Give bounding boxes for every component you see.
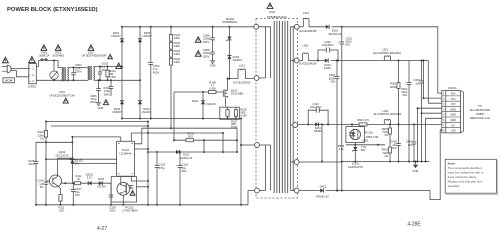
svg-text:1: 1 bbox=[443, 93, 445, 96]
svg-text:GND: GND bbox=[450, 118, 456, 122]
svg-text:GND: GND bbox=[210, 64, 216, 68]
warning triangle (CN001) bbox=[29, 57, 35, 63]
svg-text:CN101: CN101 bbox=[448, 86, 457, 90]
note box bbox=[447, 161, 498, 195]
svg-text:2SC1371A: 2SC1371A bbox=[55, 153, 68, 157]
wire choke L002 to bridge top bbox=[95, 66, 123, 68]
svg-text:4-27: 4-27 bbox=[97, 226, 107, 232]
svg-text:5008-2A: 5008-2A bbox=[39, 54, 49, 58]
diode D103 1N4007 bbox=[227, 56, 231, 59]
wire control bus 1 bbox=[46, 121, 148, 123]
svg-text:(SEE PAGE 4-21): (SEE PAGE 4-21) bbox=[470, 116, 491, 120]
capacitor C006 470p 250V bbox=[98, 80, 100, 101]
warning triangle (bridge) bbox=[116, 63, 122, 69]
svg-text:250V: 250V bbox=[104, 92, 111, 96]
terminal: secondary 2 bbox=[294, 58, 299, 63]
svg-text:1N4007: 1N4007 bbox=[233, 58, 243, 62]
wire vertical x237 bbox=[236, 128, 238, 152]
wire choke L001 bottom bbox=[36, 79, 87, 81]
capacitor C104 1u5 5% bbox=[45, 182, 46, 184]
warning triangle (C007) bbox=[103, 100, 108, 105]
zener ZD102 27V bbox=[71, 137, 73, 183]
optocoupler PC101 (secondary side) bbox=[346, 127, 365, 143]
svg-text:ISS133: ISS133 bbox=[97, 185, 106, 189]
svg-text:EXCELDR35V: EXCELDR35V bbox=[300, 62, 318, 66]
capacitor C201 100U 50V bbox=[341, 27, 343, 162]
wire aux winding to x241 bbox=[241, 144, 255, 146]
op-amp IC101 UC3844A bbox=[117, 141, 135, 176]
capacitor C009 2200p 250V bbox=[212, 52, 213, 54]
wire base Q102 bbox=[46, 142, 49, 205]
svg-text:130K: 130K bbox=[174, 60, 181, 64]
diode D102 ERA91-02 bbox=[176, 150, 179, 154]
wire control bus 2 bbox=[51, 125, 148, 127]
svg-text:UF1822V42E6V09R: UF1822V42E6V09R bbox=[82, 54, 107, 58]
svg-text:5: 5 bbox=[443, 114, 445, 117]
svg-text:L201: L201 bbox=[303, 11, 310, 15]
svg-text:6: 6 bbox=[443, 119, 445, 122]
wire control bus 4 bbox=[131, 132, 223, 134]
svg-text:15V: 15V bbox=[451, 97, 456, 101]
terminal: secondary 1 bbox=[294, 24, 299, 29]
wire bridge left leg bbox=[121, 27, 123, 119]
svg-text:250V: 250V bbox=[203, 40, 210, 44]
wire vertical x204 bbox=[203, 140, 205, 152]
svg-text:4-28E: 4-28E bbox=[407, 222, 421, 228]
svg-text:25V: 25V bbox=[330, 80, 335, 84]
svg-text:PC101: PC101 bbox=[365, 130, 374, 134]
svg-text:1N4007: 1N4007 bbox=[112, 110, 122, 114]
ground (secondary) bbox=[415, 162, 417, 165]
wire CN001 to fuse bbox=[36, 61, 40, 67]
wire 15V to CN101 pin3 bbox=[428, 61, 442, 104]
svg-text:3: 3 bbox=[32, 79, 34, 83]
svg-text:1: 1 bbox=[32, 66, 34, 70]
resistor R301 820R bbox=[398, 61, 400, 125]
resistor divider R501 7k00 1% bbox=[389, 147, 392, 153]
wire drain to transformer terminal bbox=[227, 79, 229, 89]
svg-text:470p: 470p bbox=[159, 166, 166, 170]
terminal: secondary 5 bbox=[294, 188, 299, 193]
ground (C006) bbox=[98, 101, 100, 103]
resistor R103 130K bbox=[169, 51, 172, 58]
capacitor C303 10n bbox=[421, 61, 423, 162]
warning triangle (PC101) bbox=[130, 191, 135, 196]
warning triangle (L001) bbox=[63, 98, 68, 103]
svg-text:Note :: Note : bbox=[448, 162, 457, 166]
diode D104 1SS133 bbox=[99, 181, 102, 185]
svg-text:130K: 130K bbox=[174, 52, 181, 56]
wire C404 area to gnd bus bbox=[321, 124, 323, 161]
resistor R278 2R2 bbox=[186, 139, 194, 142]
svg-text:KA431AZTA: KA431AZTA bbox=[348, 165, 363, 169]
wire plug to CN001 pin2 bbox=[11, 71, 29, 77]
svg-text:ELCO60TRA-3R3J2R2: ELCO60TRA-3R3J2R2 bbox=[373, 51, 401, 55]
capacitor C403 10n bbox=[413, 124, 415, 161]
svg-text:R504 6.8k: R504 6.8k bbox=[366, 135, 379, 139]
diode D201 ERA91-02 bbox=[326, 25, 329, 29]
wire 35V rail bbox=[299, 27, 442, 93]
svg-text:1%: 1% bbox=[384, 133, 389, 137]
wire fuse to choke L001 bbox=[48, 61, 62, 68]
wire bottom rail (primary) bbox=[36, 204, 248, 206]
source resistor box R105/R106 bbox=[220, 107, 240, 119]
svg-text:27V: 27V bbox=[75, 162, 80, 166]
warning triangle (L002) bbox=[88, 45, 94, 51]
wire row y183 bbox=[62, 182, 112, 184]
svg-text:1.8k: 1.8k bbox=[338, 147, 344, 151]
svg-text:35V: 35V bbox=[451, 92, 456, 96]
wire gate drive row bbox=[174, 139, 237, 141]
svg-text:100µ/500V: 100µ/500V bbox=[310, 106, 322, 109]
svg-text:2R2: 2R2 bbox=[188, 135, 194, 139]
resistor R111 10K bbox=[59, 195, 62, 202]
capacitor C402 47u 10V bbox=[398, 124, 400, 161]
svg-text:10K: 10K bbox=[59, 209, 64, 213]
svg-text:0.5W: 0.5W bbox=[240, 113, 247, 117]
svg-text:3: 3 bbox=[443, 103, 445, 106]
svg-text:D104: D104 bbox=[98, 177, 105, 181]
svg-text:5%: 5% bbox=[40, 185, 44, 189]
wire feedback row bbox=[148, 151, 237, 153]
resistor chain R101-R104 line bbox=[170, 27, 172, 128]
svg-text:ERA91-02: ERA91-02 bbox=[180, 156, 193, 160]
svg-text:TO: TO bbox=[478, 104, 482, 108]
svg-text:Replace only with part num: Replace only with part num bbox=[448, 179, 483, 183]
svg-text:EXCELDR35V: EXCELDR35V bbox=[233, 80, 251, 84]
resistor R101 130K bbox=[169, 35, 172, 42]
shunt regulator IC301 KA431AZTA bbox=[354, 143, 356, 162]
svg-text:EXCELDR35V: EXCELDR35V bbox=[300, 29, 318, 33]
svg-text:GND: GND bbox=[98, 106, 104, 110]
diode D301 FE3C bbox=[325, 58, 328, 62]
svg-text:1K: 1K bbox=[77, 177, 80, 181]
svg-text:1%: 1% bbox=[40, 137, 45, 141]
svg-text:PNZRB4WL: PNZRB4WL bbox=[223, 20, 238, 24]
svg-text:+: + bbox=[176, 164, 178, 167]
warning triangle (Z001) bbox=[55, 45, 61, 51]
svg-text:UF1822SG8607Y3N: UF1822SG8607Y3N bbox=[49, 94, 74, 98]
svg-text:10V: 10V bbox=[392, 146, 397, 150]
wire control bus 3 bbox=[142, 127, 237, 129]
resistor R108 4.7 0.5W bbox=[204, 91, 223, 93]
wire primary ground drop bbox=[240, 119, 242, 205]
terminal: primary aux bottom bbox=[255, 188, 260, 193]
svg-text:5.1V: 5.1V bbox=[87, 176, 93, 180]
connector CN001 bbox=[29, 64, 37, 84]
svg-text:L101: L101 bbox=[239, 63, 246, 67]
capacitor C007 470p 250V bbox=[110, 80, 112, 96]
svg-text:15V: 15V bbox=[451, 102, 456, 106]
svg-text:250V: 250V bbox=[90, 100, 97, 104]
svg-text:8: 8 bbox=[443, 130, 445, 133]
resistor R102 130K bbox=[169, 43, 172, 50]
svg-text:GND: GND bbox=[450, 107, 456, 111]
svg-text:0.5W: 0.5W bbox=[109, 75, 116, 79]
transistor Q101 2SK GS12NB0 bbox=[223, 88, 227, 97]
wire gnd bus to bottom bbox=[341, 162, 343, 191]
wire 15V rail bbox=[299, 60, 428, 62]
svg-text:10n: 10n bbox=[408, 143, 413, 147]
svg-text:CN001: CN001 bbox=[28, 85, 37, 89]
choke L001 UF1822SG8607Y3N bbox=[62, 68, 63, 75]
svg-text:ELCO60TRA-3R3J2R2: ELCO60TRA-3R3J2R2 bbox=[374, 112, 402, 116]
capacitor C102 10u 50V bbox=[179, 152, 181, 205]
svg-text:50V: 50V bbox=[75, 193, 80, 197]
svg-text:C501: C501 bbox=[362, 139, 369, 143]
wire plug to CN001 pin1 bbox=[11, 67, 29, 69]
terminal: primary top bbox=[254, 24, 259, 29]
capacitor C103 470p bbox=[156, 152, 158, 205]
capacitor C003 47u 400V bbox=[150, 27, 152, 119]
svg-text:510K4BD: 510K4BD bbox=[53, 54, 65, 58]
svg-text:50V: 50V bbox=[345, 43, 350, 47]
svg-text:GS12NB0: GS12NB0 bbox=[231, 92, 244, 96]
resistor divider R502 7k40 1% bbox=[389, 124, 391, 161]
wire vertical x223 bbox=[222, 133, 224, 152]
svg-text:D601: D601 bbox=[320, 184, 327, 188]
svg-text:GND: GND bbox=[450, 113, 456, 117]
svg-text:AC IN: AC IN bbox=[5, 79, 12, 83]
wire secondary3 / 6V rail bbox=[298, 123, 442, 125]
diode D004 1N4007 bbox=[138, 101, 142, 104]
svg-text:250V: 250V bbox=[203, 54, 210, 58]
wire PC101 box to 6V rail bbox=[351, 124, 353, 126]
svg-text:ERA91-02: ERA91-02 bbox=[329, 32, 342, 36]
svg-text:mark ∆ or dotted line with m: mark ∆ or dotted line with m bbox=[448, 171, 484, 175]
svg-text:∆ are critical for safety.: ∆ are critical for safety. bbox=[448, 175, 477, 179]
capacitor C301 820U 25V bbox=[336, 61, 338, 191]
svg-text:IC101: IC101 bbox=[122, 148, 130, 152]
wire GND pins: pin4 bbox=[418, 108, 442, 161]
svg-text:1%: 1% bbox=[384, 154, 389, 158]
wire GND pins: pin5 bbox=[422, 112, 442, 114]
wire GND pins: pin6 bbox=[426, 118, 442, 161]
capacitor C107 22u 50V bbox=[72, 183, 74, 205]
warning triangle (AC plug) bbox=[3, 57, 9, 63]
wire 15V to CN101 pin2 bbox=[424, 61, 442, 99]
wire choke L001 to C004 top bbox=[69, 67, 88, 69]
wire GND bus bbox=[299, 161, 429, 164]
capacitor C108 100n bbox=[35, 142, 37, 205]
svg-text:UC3844A: UC3844A bbox=[120, 151, 132, 155]
wire control bus 5 bbox=[72, 136, 120, 138]
warning triangle (T001) bbox=[267, 3, 273, 9]
ground (C008/C009) bbox=[212, 59, 214, 61]
svg-text:MA-336 BOARD: MA-336 BOARD bbox=[470, 108, 490, 112]
terminal: primary aux top bbox=[255, 143, 260, 148]
wire gate line from IC101 bbox=[174, 92, 204, 140]
wire row y142 bbox=[36, 141, 72, 143]
svg-text:130K: 130K bbox=[174, 36, 181, 40]
svg-text:50V: 50V bbox=[402, 93, 407, 97]
svg-text:50V: 50V bbox=[182, 169, 187, 173]
capacitor C302 100u 50V bbox=[408, 61, 410, 162]
wire choke L002 bottom to bridge bbox=[95, 79, 141, 81]
svg-text:The components identified: The components identified bbox=[448, 166, 482, 170]
wire aux winding bottom bbox=[248, 191, 255, 205]
capacitor C002 0.1 250V bbox=[99, 67, 101, 81]
svg-text:+: + bbox=[69, 188, 71, 191]
svg-text:SB280: SB280 bbox=[314, 129, 322, 133]
svg-text:1N4007: 1N4007 bbox=[111, 34, 121, 38]
svg-text:100n: 100n bbox=[28, 162, 35, 166]
svg-text:LTV817BMV: LTV817BMV bbox=[122, 209, 138, 213]
wire vertical x148 bbox=[147, 122, 149, 205]
svg-text:FE3C: FE3C bbox=[324, 66, 331, 70]
svg-text:L302: L302 bbox=[302, 44, 309, 48]
svg-text:1SS133: 1SS133 bbox=[206, 102, 216, 106]
warning triangle (C002) bbox=[108, 54, 113, 58]
svg-text:820R: 820R bbox=[390, 85, 397, 89]
zener DZ101 5.1V bbox=[88, 181, 91, 185]
svg-text:10n: 10n bbox=[415, 81, 420, 85]
capacitor C105 220n bbox=[110, 183, 112, 205]
optocoupler PC101 LTV817BMV (primary side) bbox=[111, 177, 136, 203]
diode D101 1SS133 bbox=[202, 92, 204, 119]
resistor R104 130K bbox=[169, 59, 172, 66]
label AC IN bbox=[3, 78, 14, 83]
svg-text:+: + bbox=[338, 41, 340, 44]
terminal: secondary 3 bbox=[293, 123, 298, 128]
svg-text:L001: L001 bbox=[59, 90, 65, 94]
capacitor C004 0.047/250V bbox=[73, 68, 75, 81]
svg-text:130K: 130K bbox=[174, 44, 181, 48]
diode D002 1N4007 bbox=[120, 101, 124, 104]
svg-text:D101: D101 bbox=[192, 99, 199, 103]
warning triangle (F001) bbox=[41, 45, 47, 51]
svg-text:0.5W: 0.5W bbox=[209, 86, 216, 90]
svg-text:GND: GND bbox=[413, 169, 419, 173]
wire mid row bbox=[346, 144, 385, 146]
resistor R001 2M 0.5W bbox=[107, 67, 109, 81]
diode D601 ERA91-02 bbox=[320, 188, 323, 192]
svg-text:CN800: CN800 bbox=[476, 112, 485, 116]
terminal: primary mid bbox=[254, 76, 259, 81]
svg-text:250V: 250V bbox=[75, 70, 82, 74]
wire bridge right leg bbox=[139, 27, 141, 119]
svg-text:4: 4 bbox=[443, 108, 445, 111]
svg-text:ERA91-02: ERA91-02 bbox=[316, 195, 329, 199]
svg-text:+: + bbox=[405, 81, 407, 84]
diode D401 SB280 bbox=[315, 122, 318, 126]
capacitor C008 2200p 250V bbox=[212, 27, 214, 59]
AC plug P1 bbox=[7, 65, 11, 73]
svg-text:2: 2 bbox=[32, 73, 34, 77]
resistor R112 1K bbox=[75, 182, 81, 185]
resistor R110 22K0 1% bbox=[45, 122, 47, 143]
svg-text:specified.: specified. bbox=[448, 184, 460, 188]
svg-text:T001: T001 bbox=[269, 10, 276, 14]
svg-text:6V: 6V bbox=[452, 123, 455, 127]
svg-text:7: 7 bbox=[443, 124, 445, 127]
terminal: secondary 4 bbox=[294, 160, 299, 165]
svg-text:100µ/500V: 100µ/500V bbox=[322, 44, 334, 47]
svg-text:POWER BLOCK (ETXNY165E1D): POWER BLOCK (ETXNY165E1D) bbox=[7, 7, 98, 13]
svg-text:2: 2 bbox=[443, 98, 445, 101]
transistor Q102 2SC1371A bbox=[50, 175, 62, 187]
svg-text:50V: 50V bbox=[361, 148, 366, 152]
svg-text:R503 470: R503 470 bbox=[357, 118, 369, 122]
svg-text:1N4007: 1N4007 bbox=[142, 110, 152, 114]
wire bridge bottom rail bbox=[122, 118, 241, 120]
svg-text:400V: 400V bbox=[153, 70, 160, 74]
svg-text:220n: 220n bbox=[109, 209, 116, 213]
wire -15V rail bbox=[299, 130, 442, 200]
svg-text:+: + bbox=[147, 61, 149, 64]
wire top rail primary bbox=[122, 26, 254, 28]
svg-text:-15V: -15V bbox=[450, 129, 456, 133]
